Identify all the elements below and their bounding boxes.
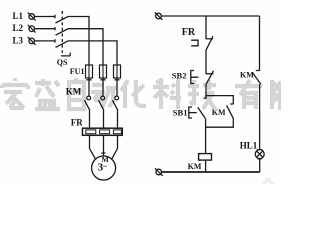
terminal L1 [28, 13, 36, 21]
svg-text:FR: FR [182, 27, 196, 38]
svg-text:FR: FR [71, 117, 83, 127]
wire fuse2 to KM contact 2 [101, 78, 106, 96]
lamp HL1 [255, 150, 264, 159]
wire FR heater to motor (phase 3) [112, 135, 118, 159]
svg-text:SB2: SB2 [172, 71, 187, 81]
svg-text:3~: 3~ [98, 161, 108, 173]
svg-text:HL1: HL1 [240, 141, 258, 151]
svg-text:KM: KM [188, 162, 202, 171]
wire KM aux contact to node B [205, 119, 233, 127]
svg-text:SB1: SB1 [173, 107, 188, 117]
svg-text:FU1: FU1 [70, 67, 85, 76]
wire SB1 to coil KM [205, 118, 207, 153]
wire KM contact 3 to FR heater [117, 110, 119, 128]
wire FR heater to motor (phase 2) [101, 135, 105, 156]
switch QS pole 2 blade [56, 29, 69, 36]
switch QS pole 3 blade [56, 41, 69, 48]
wire top rail to FR contact [205, 16, 207, 39]
switch QS linkage (dashed) [61, 11, 63, 53]
thermal relay FR NC contact [191, 36, 213, 50]
wire fuse1 to KM contact 1 [87, 78, 92, 96]
wire L2 to switch [35, 27, 56, 30]
terminal control top [155, 12, 163, 20]
motor M 3~ [92, 156, 116, 180]
wire KM lamp contact to lamp HL1 [257, 84, 262, 149]
wire pole3 to fuse 3 [69, 41, 118, 65]
terminal control bottom [155, 168, 163, 176]
contactor KM main contact 1 [85, 96, 91, 110]
wire control bottom rail [162, 171, 260, 173]
svg-text:L2: L2 [13, 23, 24, 33]
svg-text:QS: QS [57, 58, 68, 67]
svg-text:L1: L1 [13, 11, 24, 21]
contactor KM auxiliary contact (self-holding) [227, 104, 234, 119]
contactor KM contact (lamp branch) [253, 73, 261, 84]
thermal relay FR heater box [83, 128, 123, 135]
wire pole1 to fuse 1 [69, 17, 90, 66]
coil KM [199, 154, 212, 161]
wire SB2 to node A [205, 85, 207, 98]
wire control top rail [161, 15, 259, 17]
contactor KM main contact 2 [99, 96, 105, 110]
wire coil KM to bottom rail [205, 160, 207, 172]
wire node A branch to KM aux contact [206, 96, 233, 104]
wire top rail right drop to KM lamp contact [256, 16, 260, 71]
contactor KM main contact 3 [113, 96, 119, 110]
wire KM contact 2 to FR heater [103, 110, 105, 128]
wire FR contact to SB2 [205, 51, 207, 75]
pushbutton SB2 (NC stop button) [191, 71, 214, 85]
switch QS pole 1 blade [56, 16, 69, 23]
wire FR heater to motor (phase 1) [90, 135, 96, 159]
svg-text:KM: KM [240, 71, 254, 80]
wire lamp HL1 to bottom rail [258, 159, 262, 172]
pushbutton SB1 (NO start button) [189, 98, 207, 118]
terminal L3 [28, 37, 36, 45]
wire pole2 to fuse 2 [69, 29, 104, 65]
fuse FU1 element 1 [86, 65, 93, 78]
switch QS linkage end mark [61, 53, 70, 56]
svg-text:KM: KM [212, 108, 226, 117]
wire fuse3 to KM contact 3 [115, 78, 120, 96]
svg-text:KM: KM [66, 87, 82, 97]
fuse FU1 element 2 [100, 65, 107, 78]
watermark text (gray company watermark) [2, 78, 280, 184]
terminal L2 [28, 25, 36, 33]
wire L1 to switch [35, 15, 56, 18]
wire KM contact 1 to FR heater [89, 110, 91, 128]
wire L3 to switch [35, 39, 56, 42]
fuse FU1 element 3 [114, 65, 121, 78]
svg-text:L3: L3 [13, 35, 24, 45]
